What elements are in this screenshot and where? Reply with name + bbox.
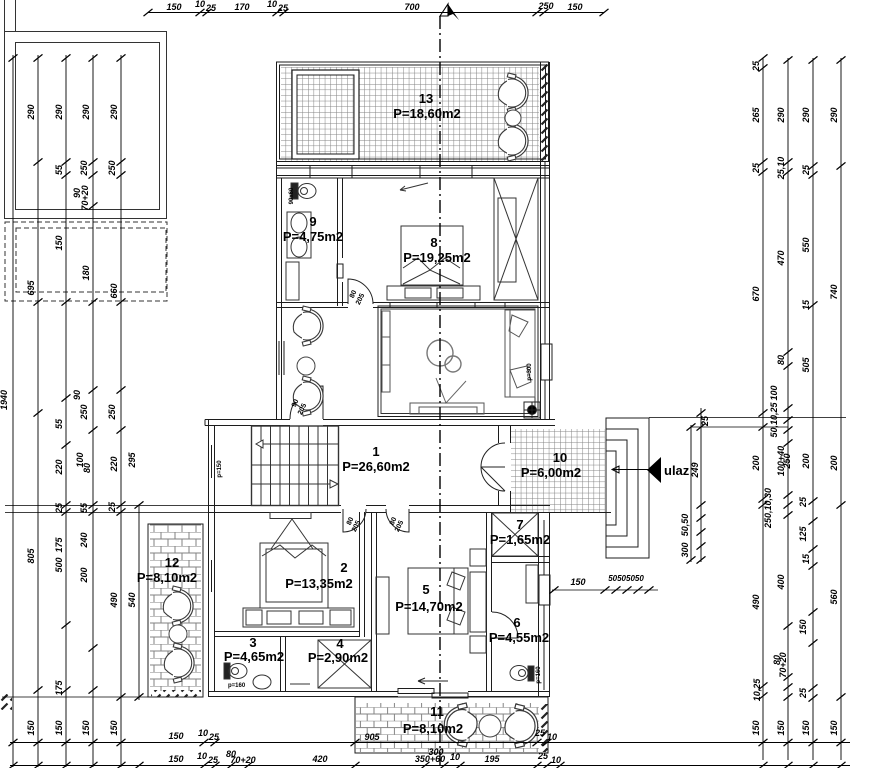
svg-text:250: 250 bbox=[107, 404, 117, 420]
svg-text:695: 695 bbox=[26, 280, 36, 296]
svg-text:6: 6 bbox=[513, 615, 520, 630]
svg-text:290: 290 bbox=[776, 107, 786, 123]
svg-text:550: 550 bbox=[801, 237, 811, 252]
svg-text:P=4,65m2: P=4,65m2 bbox=[224, 649, 284, 664]
svg-text:ulaz: ulaz bbox=[664, 463, 690, 478]
svg-text:200: 200 bbox=[801, 453, 811, 469]
svg-text:25,10: 25,10 bbox=[776, 157, 786, 181]
svg-text:9: 9 bbox=[309, 214, 316, 229]
svg-text:400: 400 bbox=[776, 574, 786, 590]
svg-text:200: 200 bbox=[79, 567, 89, 583]
svg-text:P=13,35m2: P=13,35m2 bbox=[285, 576, 353, 591]
svg-text:150: 150 bbox=[109, 720, 119, 735]
svg-text:240: 240 bbox=[79, 532, 89, 548]
svg-text:25: 25 bbox=[277, 3, 289, 13]
svg-text:8: 8 bbox=[430, 235, 437, 250]
svg-text:50,50: 50,50 bbox=[680, 514, 690, 537]
svg-text:90x60: 90x60 bbox=[289, 187, 295, 204]
svg-text:25: 25 bbox=[208, 732, 220, 742]
svg-text:905: 905 bbox=[364, 732, 380, 742]
svg-text:10: 10 bbox=[267, 0, 277, 9]
svg-text:p=300: p=300 bbox=[527, 363, 533, 381]
svg-text:170: 170 bbox=[234, 2, 249, 12]
svg-text:150: 150 bbox=[776, 720, 786, 735]
svg-text:70+20: 70+20 bbox=[80, 185, 90, 210]
svg-text:250: 250 bbox=[782, 453, 792, 469]
svg-text:470: 470 bbox=[776, 250, 786, 266]
svg-text:P=14,70m2: P=14,70m2 bbox=[395, 599, 463, 614]
svg-text:290: 290 bbox=[54, 104, 64, 120]
svg-text:25: 25 bbox=[205, 3, 217, 13]
svg-text:80: 80 bbox=[82, 463, 92, 473]
svg-text:90: 90 bbox=[72, 390, 82, 400]
svg-text:P=19,25m2: P=19,25m2 bbox=[403, 250, 471, 265]
svg-text:10,25: 10,25 bbox=[752, 678, 762, 702]
svg-text:15: 15 bbox=[801, 553, 811, 564]
svg-text:70+20: 70+20 bbox=[778, 652, 788, 677]
svg-text:25: 25 bbox=[700, 415, 710, 427]
svg-text:1940: 1940 bbox=[0, 390, 9, 410]
svg-text:25: 25 bbox=[801, 164, 811, 176]
svg-text:55: 55 bbox=[54, 418, 64, 429]
svg-text:4: 4 bbox=[336, 636, 344, 651]
svg-text:500: 500 bbox=[54, 557, 64, 572]
svg-text:290: 290 bbox=[109, 104, 119, 120]
svg-text:7: 7 bbox=[516, 517, 523, 532]
svg-text:250: 250 bbox=[537, 1, 553, 11]
svg-text:p=160: p=160 bbox=[228, 683, 246, 689]
svg-text:250: 250 bbox=[79, 404, 89, 420]
svg-text:80: 80 bbox=[776, 355, 786, 365]
svg-text:25: 25 bbox=[798, 687, 808, 699]
svg-text:740: 740 bbox=[829, 284, 839, 299]
svg-text:P=1,65m2: P=1,65m2 bbox=[490, 532, 550, 547]
svg-text:150: 150 bbox=[54, 235, 64, 250]
svg-text:3: 3 bbox=[249, 635, 256, 650]
svg-text:P=8,10m2: P=8,10m2 bbox=[137, 570, 197, 585]
svg-text:150: 150 bbox=[798, 619, 808, 634]
svg-text:490: 490 bbox=[751, 594, 761, 610]
svg-text:25: 25 bbox=[534, 728, 546, 738]
svg-text:25: 25 bbox=[751, 60, 761, 72]
svg-text:295: 295 bbox=[127, 452, 137, 469]
svg-text:150: 150 bbox=[166, 2, 181, 12]
svg-text:150: 150 bbox=[570, 577, 585, 587]
svg-text:P=4,75m2: P=4,75m2 bbox=[283, 229, 343, 244]
svg-text:P=26,60m2: P=26,60m2 bbox=[342, 459, 410, 474]
svg-text:25: 25 bbox=[207, 755, 219, 765]
svg-text:10: 10 bbox=[450, 752, 460, 762]
svg-text:200: 200 bbox=[829, 455, 839, 471]
svg-text:10: 10 bbox=[198, 728, 208, 738]
svg-text:290: 290 bbox=[829, 107, 839, 123]
svg-text:265: 265 bbox=[751, 107, 761, 124]
svg-text:150: 150 bbox=[81, 720, 91, 735]
svg-text:125: 125 bbox=[798, 526, 808, 542]
svg-text:290: 290 bbox=[81, 104, 91, 120]
svg-text:195: 195 bbox=[484, 754, 500, 764]
svg-text:290: 290 bbox=[26, 104, 36, 120]
svg-text:10: 10 bbox=[195, 0, 205, 9]
svg-text:560: 560 bbox=[829, 589, 839, 604]
svg-text:55: 55 bbox=[54, 164, 64, 175]
svg-text:490: 490 bbox=[109, 592, 119, 608]
svg-text:15: 15 bbox=[801, 299, 811, 310]
svg-text:700: 700 bbox=[404, 2, 419, 12]
svg-text:175: 175 bbox=[54, 680, 64, 696]
svg-text:P=8,10m2: P=8,10m2 bbox=[403, 721, 463, 736]
svg-text:10: 10 bbox=[553, 450, 567, 465]
svg-text:50,10,25: 50,10,25 bbox=[769, 401, 779, 437]
svg-text:70+20: 70+20 bbox=[230, 755, 255, 765]
svg-text:805: 805 bbox=[26, 548, 36, 564]
svg-text:220: 220 bbox=[109, 456, 119, 472]
svg-text:100: 100 bbox=[769, 385, 779, 400]
svg-text:P=6,00m2: P=6,00m2 bbox=[521, 465, 581, 480]
svg-text:250,10,30: 250,10,30 bbox=[763, 488, 773, 529]
svg-text:P=18,60m2: P=18,60m2 bbox=[393, 106, 461, 121]
svg-text:13: 13 bbox=[419, 91, 433, 106]
svg-text:150: 150 bbox=[54, 720, 64, 735]
svg-text:25: 25 bbox=[54, 502, 64, 514]
svg-text:25: 25 bbox=[107, 501, 117, 513]
svg-text:290: 290 bbox=[801, 107, 811, 123]
svg-text:150: 150 bbox=[567, 2, 582, 12]
svg-text:p=150: p=150 bbox=[217, 460, 223, 478]
svg-text:1: 1 bbox=[372, 444, 379, 459]
svg-text:P=4,55m2: P=4,55m2 bbox=[489, 630, 549, 645]
svg-text:350+60: 350+60 bbox=[415, 754, 445, 764]
svg-text:2: 2 bbox=[340, 560, 347, 575]
svg-text:10: 10 bbox=[547, 732, 557, 742]
svg-text:150: 150 bbox=[801, 720, 811, 735]
svg-text:220: 220 bbox=[54, 459, 64, 475]
svg-text:25: 25 bbox=[537, 751, 549, 761]
svg-text:150: 150 bbox=[168, 754, 183, 764]
svg-text:175: 175 bbox=[54, 537, 64, 553]
svg-text:p=160: p=160 bbox=[536, 666, 542, 684]
svg-text:540: 540 bbox=[127, 592, 137, 607]
svg-text:P=2,90m2: P=2,90m2 bbox=[308, 650, 368, 665]
svg-text:200: 200 bbox=[751, 455, 761, 471]
svg-text:10: 10 bbox=[197, 751, 207, 761]
svg-text:670: 670 bbox=[751, 286, 761, 301]
svg-text:10: 10 bbox=[551, 755, 561, 765]
svg-text:5: 5 bbox=[422, 582, 429, 597]
svg-text:249: 249 bbox=[690, 462, 700, 478]
svg-text:12: 12 bbox=[165, 555, 179, 570]
svg-text:55: 55 bbox=[79, 502, 89, 513]
svg-text:150: 150 bbox=[751, 720, 761, 735]
svg-text:505: 505 bbox=[801, 357, 811, 373]
svg-text:420: 420 bbox=[311, 754, 327, 764]
svg-text:150: 150 bbox=[168, 731, 183, 741]
svg-text:25: 25 bbox=[798, 496, 808, 508]
svg-text:300: 300 bbox=[680, 542, 690, 557]
svg-text:250: 250 bbox=[107, 160, 117, 176]
svg-text:150: 150 bbox=[26, 720, 36, 735]
svg-text:660: 660 bbox=[109, 283, 119, 298]
svg-text:180: 180 bbox=[81, 265, 91, 280]
svg-text:11: 11 bbox=[430, 704, 444, 719]
svg-text:150: 150 bbox=[829, 720, 839, 735]
svg-text:50505050: 50505050 bbox=[608, 574, 644, 583]
svg-text:250: 250 bbox=[79, 160, 89, 176]
svg-text:25: 25 bbox=[751, 162, 761, 174]
